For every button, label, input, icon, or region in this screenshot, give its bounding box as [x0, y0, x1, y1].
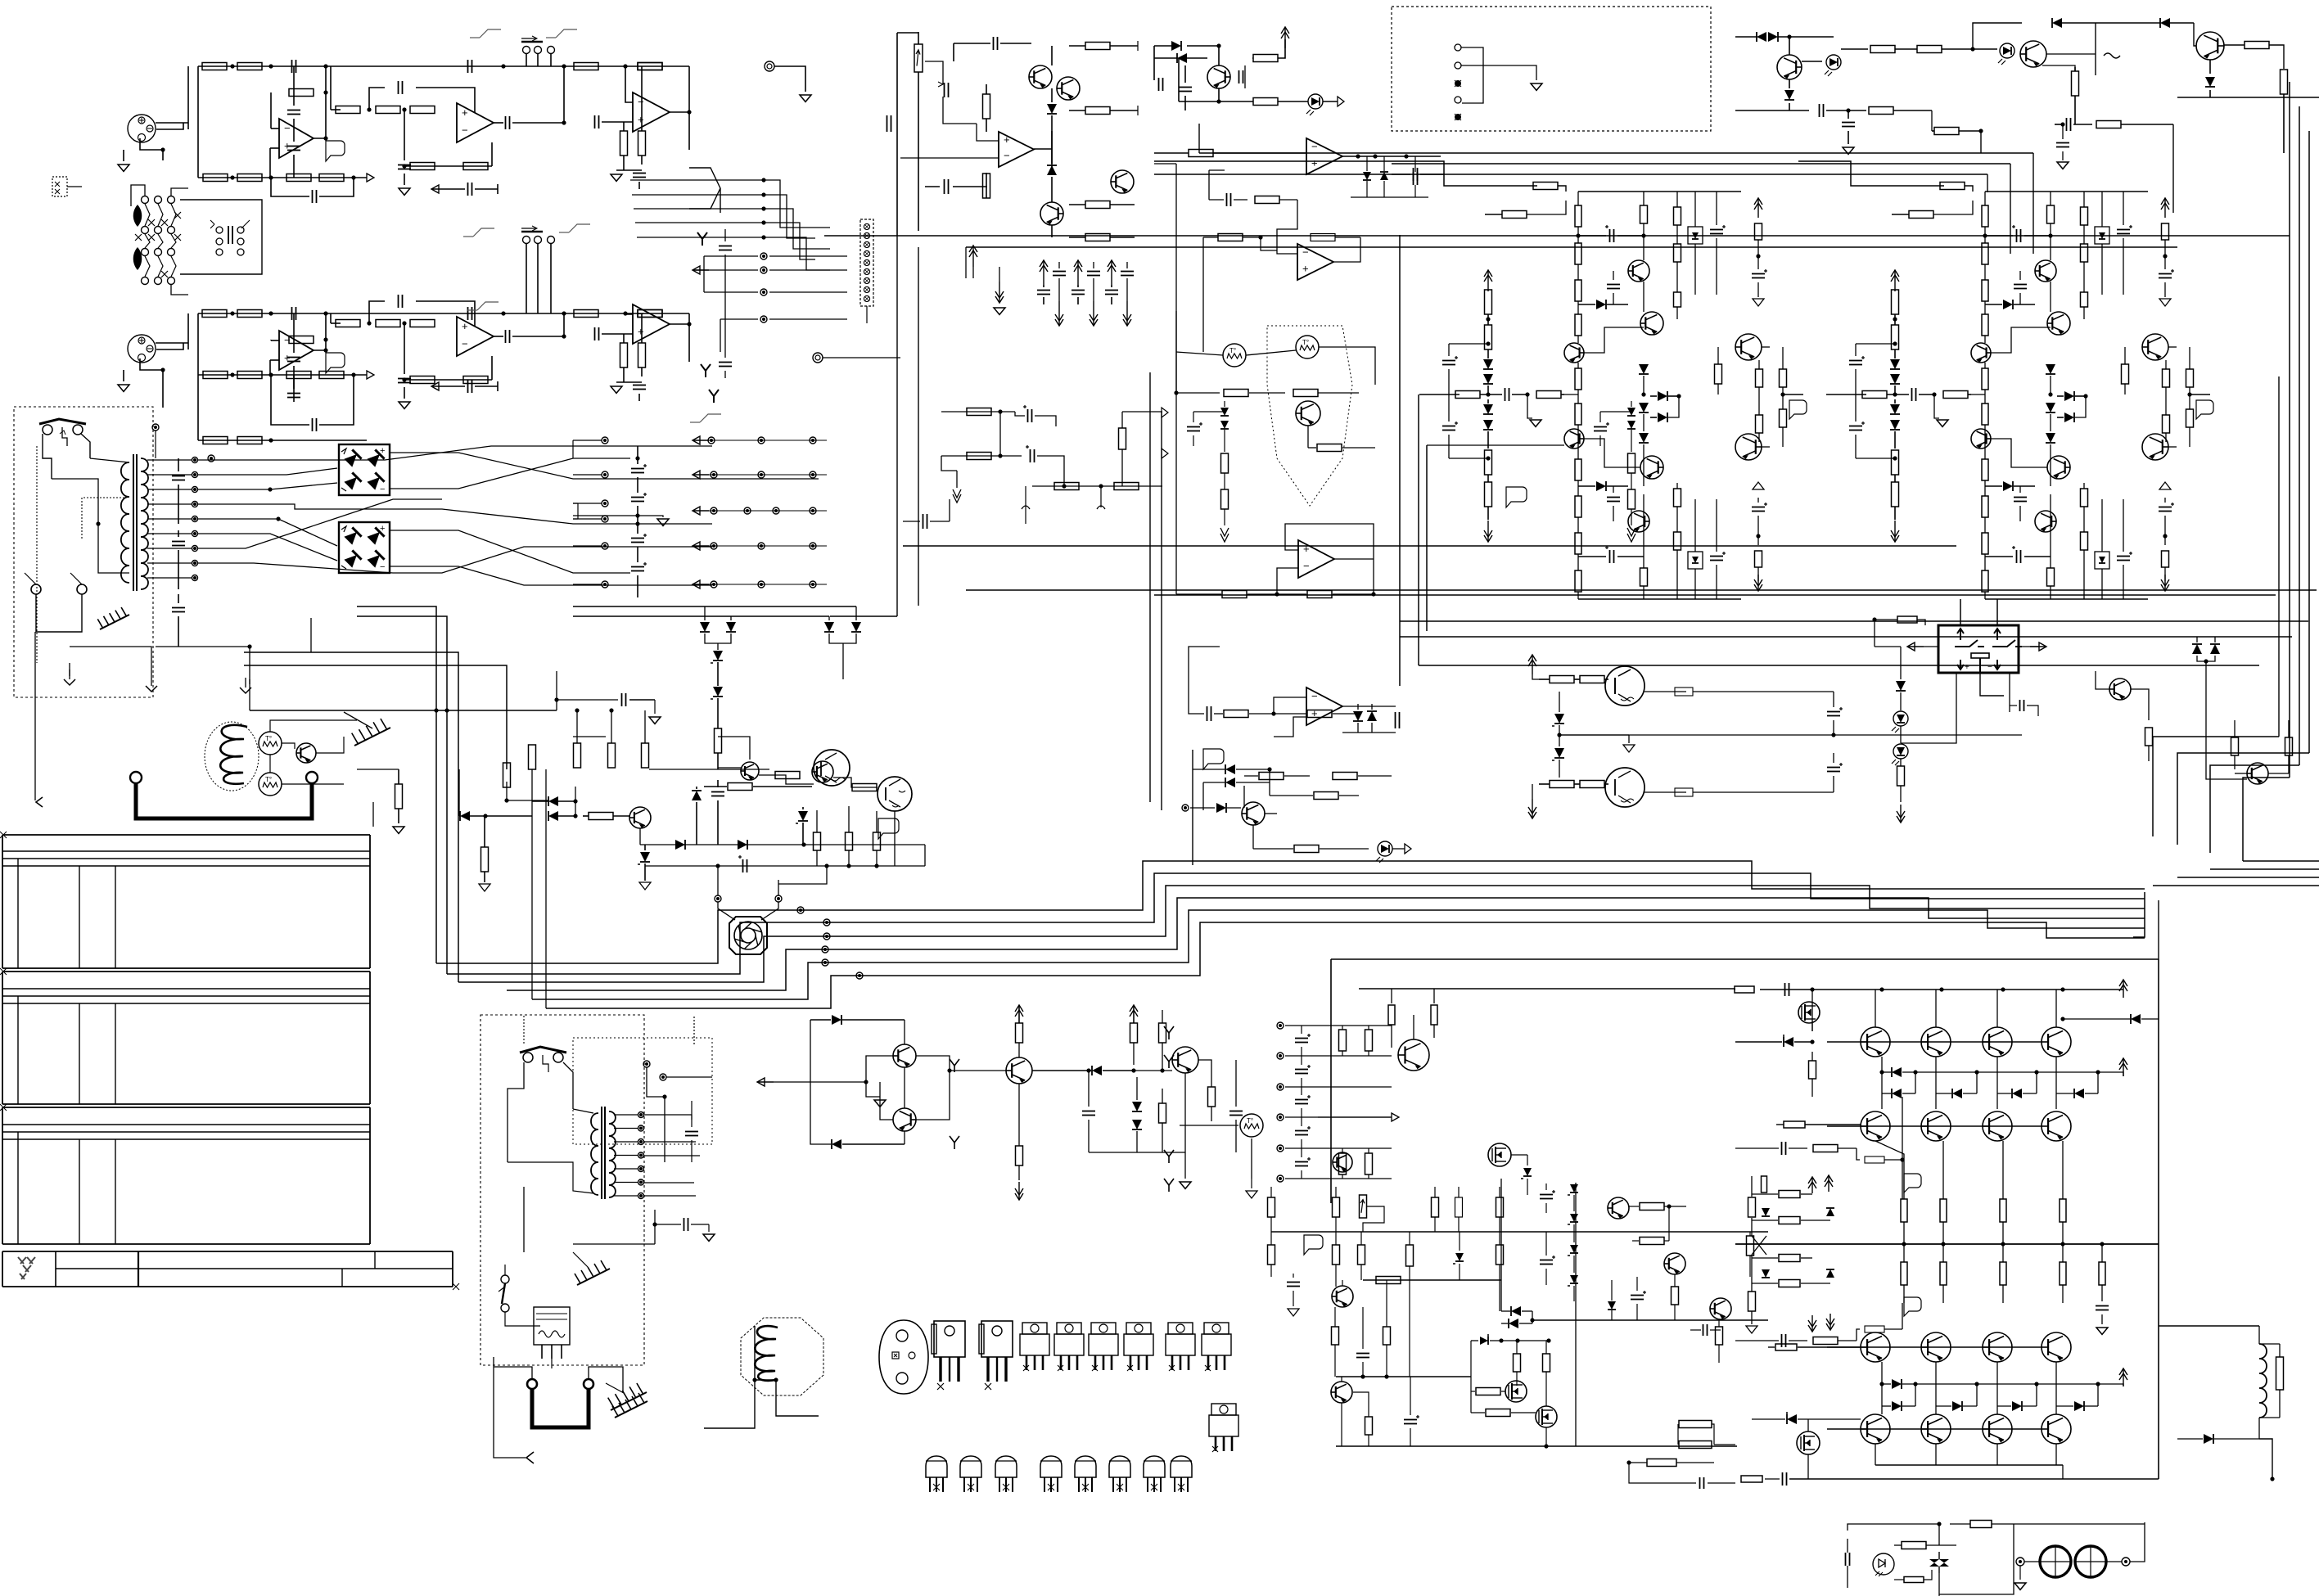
svg-text:+: +: [380, 446, 385, 456]
svg-text:+: +: [1311, 156, 1318, 169]
svg-text:T°: T°: [265, 776, 272, 783]
svg-text:−: −: [1303, 560, 1310, 572]
svg-text:+: +: [1004, 133, 1010, 146]
svg-text:−: −: [1311, 141, 1318, 153]
svg-text:T°: T°: [1247, 1117, 1253, 1125]
svg-text:+: +: [638, 113, 644, 125]
svg-text:−: −: [380, 485, 385, 494]
svg-text:−: −: [1311, 690, 1318, 702]
svg-text:+: +: [380, 524, 385, 534]
svg-text:T°: T°: [1302, 339, 1309, 346]
svg-text:T°: T°: [265, 735, 272, 742]
svg-text:−: −: [638, 96, 644, 108]
svg-text:T°: T°: [1229, 347, 1236, 354]
svg-text:−: −: [462, 124, 468, 136]
svg-text:+: +: [462, 106, 468, 119]
svg-text:+: +: [1311, 707, 1318, 719]
svg-text:+: +: [1965, 663, 1969, 672]
svg-text:−: −: [284, 122, 291, 134]
svg-text:+: +: [462, 320, 468, 332]
svg-text:−: −: [1302, 246, 1309, 259]
svg-text:+: +: [1302, 262, 1309, 274]
svg-text:−: −: [1004, 150, 1010, 162]
svg-text:−: −: [1987, 663, 1992, 672]
svg-text:−: −: [462, 337, 468, 349]
svg-text:−: −: [380, 562, 385, 572]
svg-text:+: +: [1303, 543, 1310, 555]
svg-text:+: +: [638, 325, 644, 337]
